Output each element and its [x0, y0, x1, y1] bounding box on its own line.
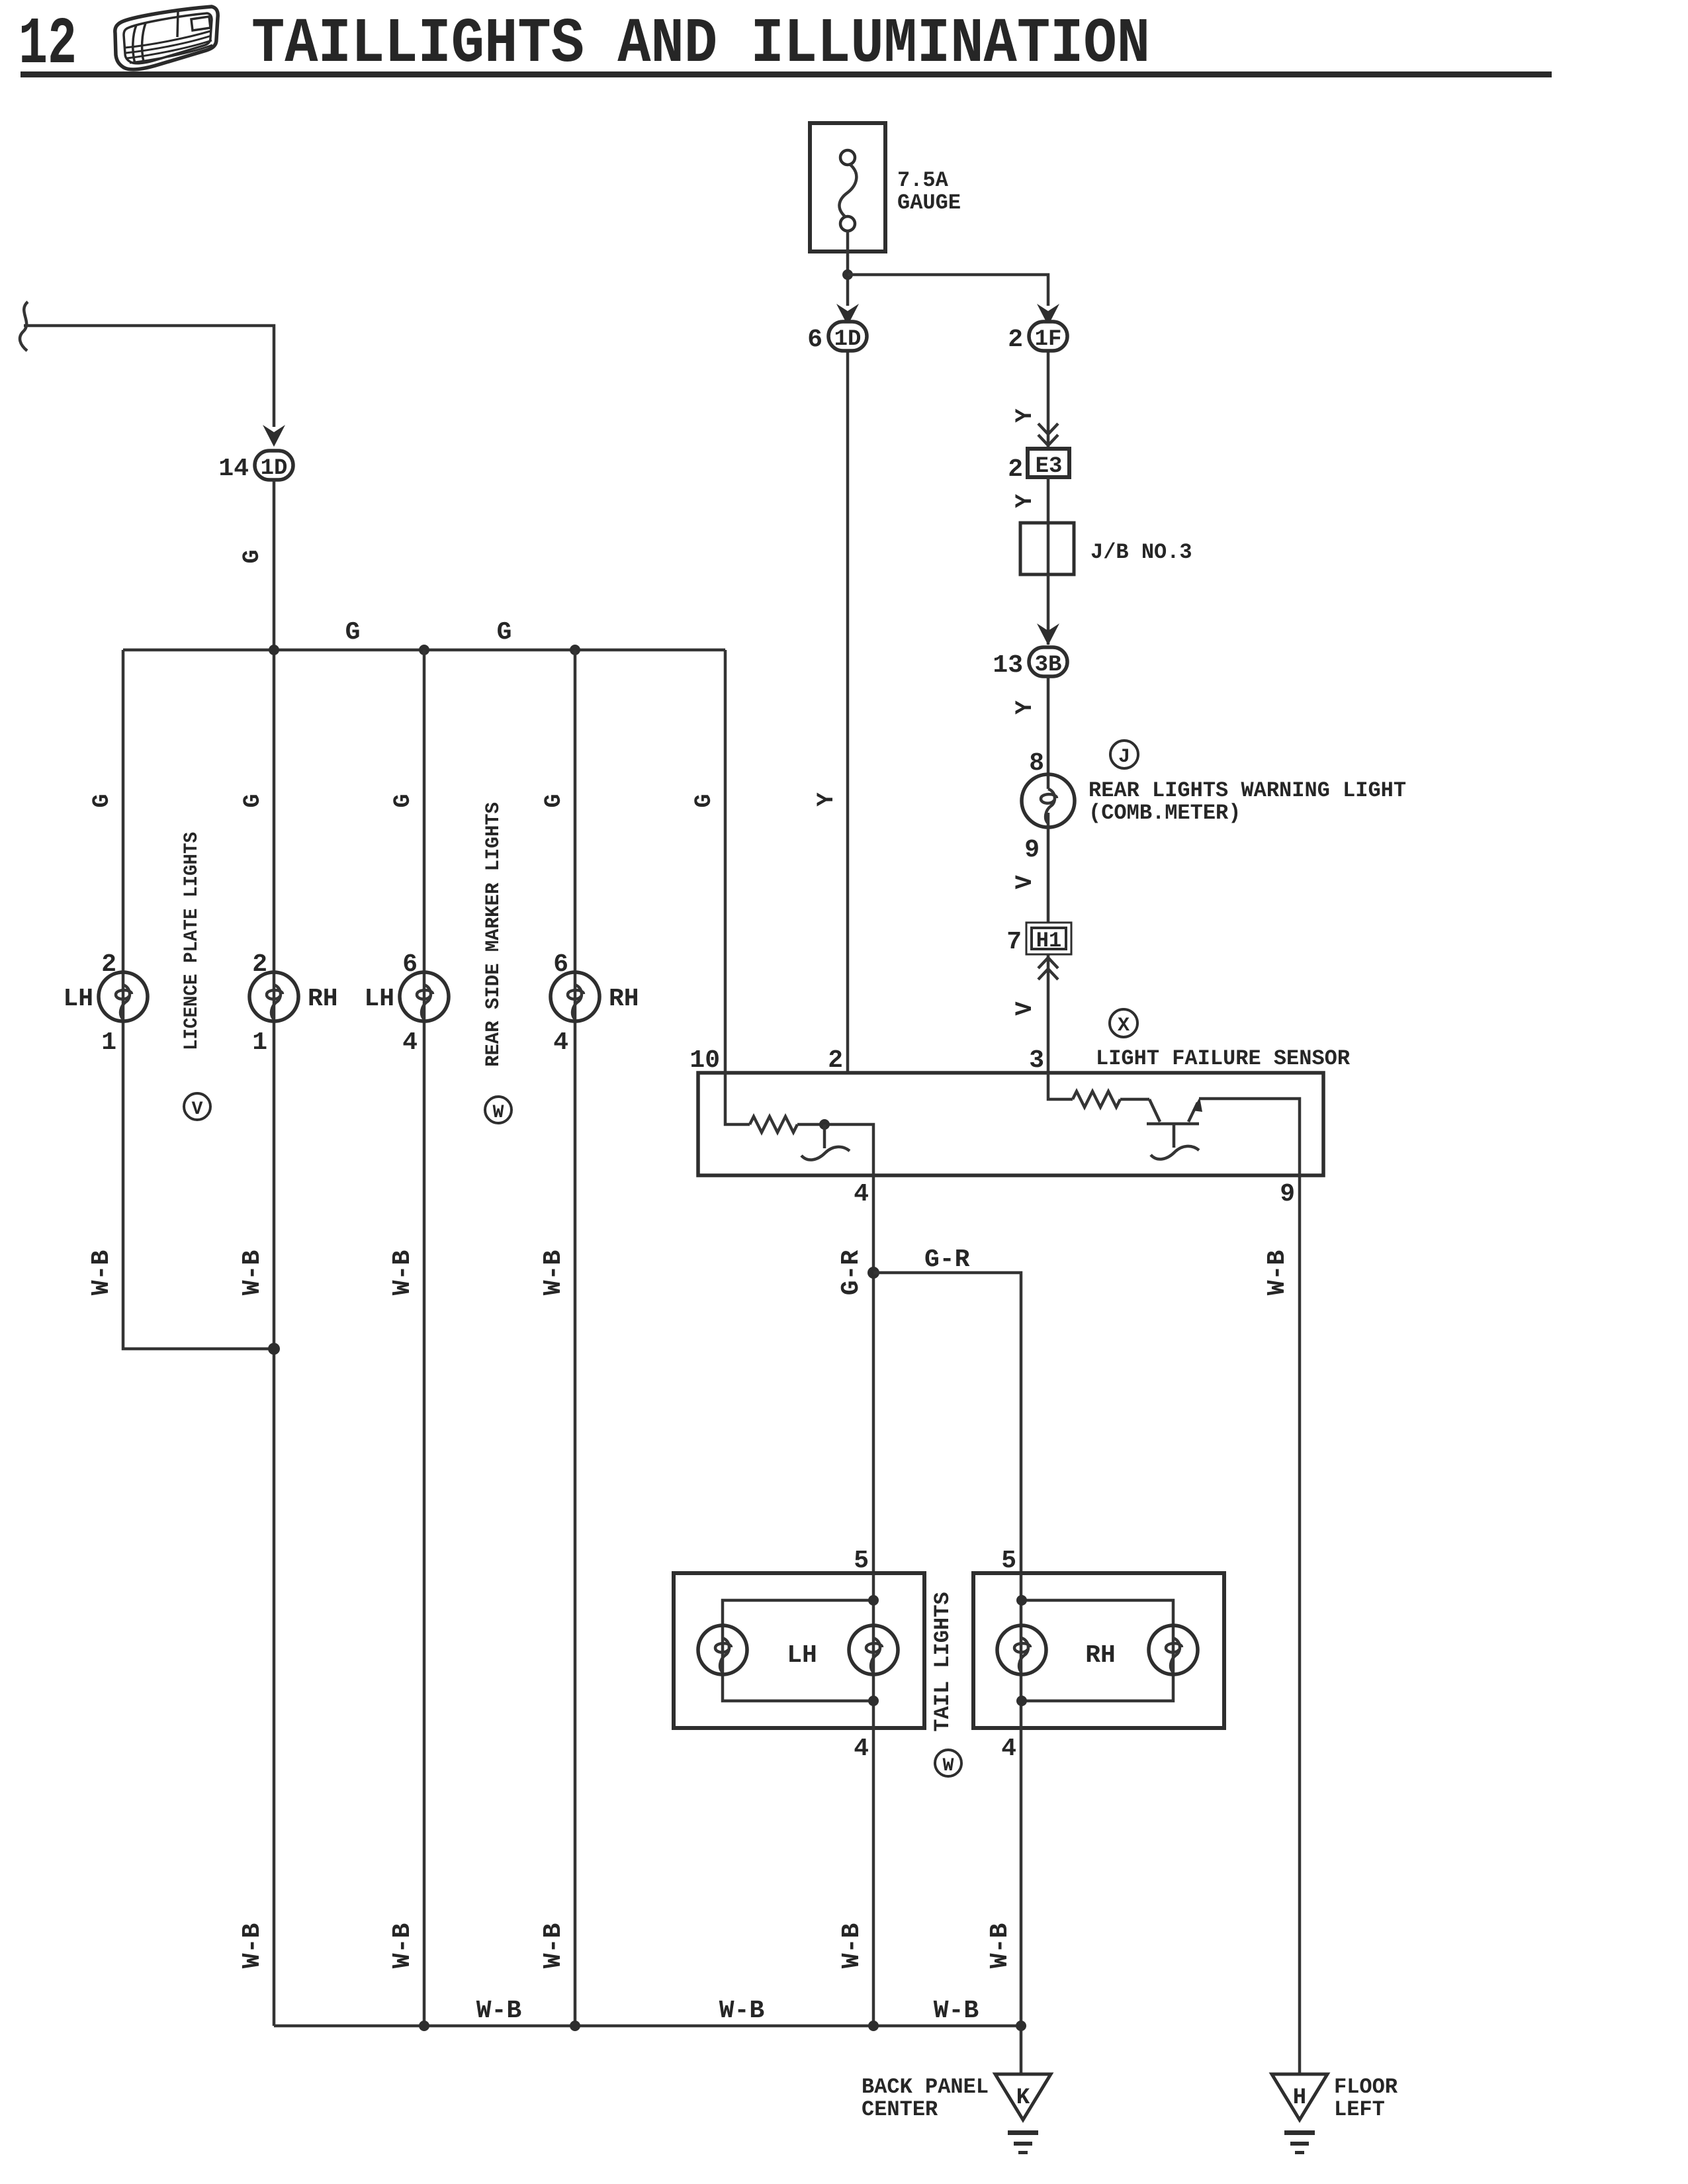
- wire J/B to 3B: [1047, 574, 1050, 645]
- wire H1 to sensor pin 3: [1047, 954, 1050, 1073]
- node bus-col4: [570, 645, 580, 655]
- wire col4 rear marker RH: [574, 650, 577, 2026]
- svg-text:W-B: W-B: [838, 1923, 866, 1968]
- double chevron into E3: [1038, 424, 1058, 445]
- tail light LH box: [674, 1573, 924, 1728]
- node col1 joins col2: [268, 1343, 280, 1355]
- wire 1D oval to sensor pin 2: [846, 351, 850, 1073]
- node RH top: [1016, 1595, 1027, 1606]
- connector oval 1D (14): [218, 451, 293, 483]
- connector arrow into 1D: [836, 304, 859, 326]
- wire pin3 into sensor: [1048, 1073, 1073, 1099]
- svg-text:3B: 3B: [1035, 653, 1062, 678]
- svg-text:RH: RH: [308, 985, 338, 1013]
- svg-text:Y: Y: [1012, 494, 1038, 508]
- svg-text:G: G: [497, 618, 512, 647]
- svg-text:5: 5: [1001, 1547, 1016, 1575]
- svg-text:G: G: [89, 794, 115, 807]
- svg-text:3: 3: [1029, 1046, 1044, 1075]
- svg-text:X: X: [1118, 1015, 1130, 1037]
- wire 1F oval down to E3: [1047, 351, 1050, 449]
- wire RH tail to bottom bus and K ground: [1020, 1728, 1023, 2074]
- svg-text:CENTER: CENTER: [862, 2097, 938, 2122]
- double chevron up into H1: [1038, 958, 1058, 979]
- svg-text:W: W: [493, 1103, 504, 1123]
- svg-text:W-B: W-B: [986, 1923, 1014, 1968]
- svg-text:LIGHT FAILURE SENSOR: LIGHT FAILURE SENSOR: [1096, 1046, 1351, 1071]
- svg-text:FLOOR: FLOOR: [1334, 2075, 1398, 2099]
- wire through RH box: [1020, 1573, 1023, 1728]
- ground K back panel center: [995, 2074, 1051, 2154]
- svg-text:9: 9: [1280, 1180, 1295, 1208]
- svg-text:4: 4: [854, 1735, 869, 1763]
- svg-text:2: 2: [828, 1046, 843, 1075]
- node bus col4: [570, 2021, 580, 2031]
- svg-text:14: 14: [218, 455, 249, 483]
- svg-text:E3: E3: [1036, 454, 1063, 479]
- node bus col3: [419, 2021, 429, 2031]
- svg-text:G: G: [691, 794, 717, 807]
- svg-text:TAIL LIGHTS: TAIL LIGHTS: [930, 1592, 955, 1731]
- svg-text:H1: H1: [1036, 929, 1061, 953]
- LH inner loop wire: [723, 1600, 873, 1701]
- node LH bottom: [868, 1696, 879, 1706]
- connector oval 1F (2): [1008, 322, 1067, 354]
- wire col1 licence LH: [123, 650, 274, 1349]
- svg-text:Y: Y: [1012, 700, 1038, 714]
- lamp licence LH: [99, 972, 148, 1021]
- svg-text:J: J: [1118, 746, 1130, 768]
- svg-text:LEFT: LEFT: [1334, 2097, 1385, 2122]
- svg-text:RH: RH: [1085, 1641, 1116, 1670]
- svg-text:G: G: [240, 794, 266, 807]
- svg-text:2: 2: [1008, 326, 1023, 354]
- svg-text:10: 10: [689, 1046, 720, 1075]
- svg-text:Y: Y: [1012, 408, 1038, 422]
- svg-text:RH: RH: [609, 985, 639, 1013]
- svg-text:W-B: W-B: [719, 1997, 764, 2025]
- connector box E3 (2): [1008, 449, 1069, 484]
- svg-text:6: 6: [553, 950, 568, 979]
- lamp LH tail right: [849, 1625, 898, 1674]
- svg-text:5: 5: [854, 1547, 869, 1575]
- wire resistor to pin 4: [797, 1124, 873, 1175]
- svg-text:W-B: W-B: [87, 1250, 116, 1295]
- lamp marker LH: [400, 972, 449, 1021]
- svg-text:6: 6: [807, 326, 822, 354]
- svg-text:W-B: W-B: [476, 1997, 521, 2025]
- lamp RH tail left: [997, 1625, 1046, 1674]
- resistor R2 in sensor: [1073, 1091, 1120, 1107]
- svg-text:K: K: [1016, 2085, 1030, 2111]
- circled W tail: [935, 1750, 961, 1776]
- wire G-R branch to RH tail light: [873, 1273, 1021, 1573]
- wire squiggle to 1D column: [24, 326, 274, 427]
- svg-text:6: 6: [402, 950, 418, 979]
- svg-text:BACK PANEL: BACK PANEL: [862, 2075, 989, 2099]
- wire E3 to J/B: [1047, 477, 1050, 574]
- svg-text:G-R: G-R: [837, 1250, 866, 1296]
- fuse 7.5A GAUGE: [810, 123, 961, 251]
- node bus-col3: [419, 645, 429, 655]
- svg-text:4: 4: [1001, 1735, 1016, 1763]
- connector box H1 (7): [1006, 923, 1071, 956]
- wire 3B to warning lamp: [1047, 676, 1050, 775]
- svg-text:13: 13: [993, 651, 1023, 680]
- ground H floor left: [1272, 2074, 1327, 2154]
- svg-text:REAR LIGHTS WARNING LIGHT: REAR LIGHTS WARNING LIGHT: [1088, 778, 1406, 803]
- svg-text:2: 2: [252, 950, 267, 979]
- RH inner loop wire: [1022, 1600, 1173, 1701]
- svg-text:Y: Y: [813, 792, 840, 806]
- node bus tail RH: [1016, 2021, 1026, 2031]
- svg-text:W-B: W-B: [539, 1250, 568, 1295]
- svg-text:7: 7: [1006, 928, 1022, 956]
- svg-text:9: 9: [1024, 836, 1040, 864]
- svg-text:G: G: [239, 549, 265, 563]
- lamp RH tail right: [1149, 1625, 1198, 1674]
- svg-text:H: H: [1293, 2085, 1306, 2111]
- node junction below fuse: [842, 269, 853, 280]
- connector arrow into 1F: [1037, 304, 1059, 326]
- svg-text:7.5A: 7.5A: [897, 168, 949, 193]
- node bus tail LH: [868, 2021, 879, 2031]
- svg-text:1D: 1D: [834, 327, 862, 352]
- node RH bottom: [1016, 1696, 1027, 1706]
- svg-text:W-B: W-B: [388, 1923, 417, 1968]
- circled X: [1110, 1009, 1137, 1037]
- svg-text:G: G: [345, 618, 361, 647]
- svg-text:4: 4: [854, 1180, 869, 1208]
- svg-text:LH: LH: [787, 1641, 817, 1670]
- svg-text:G: G: [390, 794, 416, 807]
- wire through LH box: [872, 1573, 875, 1728]
- svg-text:LICENCE PLATE LIGHTS: LICENCE PLATE LIGHTS: [181, 832, 203, 1050]
- svg-text:1F: 1F: [1035, 327, 1062, 352]
- svg-text:W-B: W-B: [388, 1250, 417, 1295]
- svg-text:LH: LH: [63, 985, 93, 1013]
- wire col3 rear marker LH: [423, 650, 426, 2026]
- lamp LH tail left: [698, 1625, 747, 1674]
- svg-text:1: 1: [252, 1028, 267, 1057]
- tail light RH box: [973, 1573, 1224, 1728]
- svg-text:W-B: W-B: [238, 1250, 267, 1295]
- node bus-col2: [269, 645, 279, 655]
- circled W: [485, 1097, 511, 1123]
- svg-text:GAUGE: GAUGE: [897, 191, 961, 215]
- resistor R1 in sensor: [750, 1116, 797, 1132]
- taillight icon: [115, 7, 218, 69]
- wire bottom W-B bus: [274, 2025, 1021, 2028]
- wire resistor to transistor base: [1120, 1098, 1149, 1101]
- svg-text:V: V: [192, 1099, 203, 1120]
- connector oval 3B (13): [993, 647, 1067, 680]
- connector arrow into 1D left: [263, 425, 285, 447]
- svg-text:G: G: [541, 794, 567, 807]
- svg-text:J/B NO.3: J/B NO.3: [1090, 540, 1192, 565]
- node G-R junction: [867, 1267, 879, 1279]
- transistor Q1: [1147, 1097, 1202, 1160]
- header rule: [21, 71, 1552, 77]
- connector arrow into 3B: [1037, 623, 1059, 645]
- svg-text:2: 2: [1008, 455, 1023, 484]
- wire sensor pin9 down to floor ground: [1298, 1175, 1302, 2074]
- circled J: [1110, 741, 1138, 768]
- svg-text:W-B: W-B: [1263, 1250, 1292, 1295]
- svg-text:V: V: [1012, 875, 1038, 889]
- lamp licence RH: [249, 972, 298, 1021]
- sensor element stub left: [823, 1124, 826, 1148]
- wire emitter to pin 9: [1199, 1099, 1300, 1175]
- svg-text:W: W: [943, 1756, 954, 1776]
- svg-text:G-R: G-R: [924, 1246, 970, 1274]
- node sensor left junction: [819, 1119, 830, 1130]
- circled V: [184, 1093, 210, 1120]
- svg-text:2: 2: [101, 950, 116, 979]
- continuation squiggle top-left: [20, 302, 28, 351]
- svg-text:4: 4: [402, 1028, 418, 1057]
- wire top G bus: [123, 649, 725, 652]
- svg-text:REAR SIDE MARKER LIGHTS: REAR SIDE MARKER LIGHTS: [482, 802, 505, 1067]
- wire LH tail to bottom bus: [872, 1728, 875, 2026]
- svg-text:W-B: W-B: [238, 1923, 267, 1968]
- svg-text:TAILLIGHTS AND ILLUMINATION: TAILLIGHTS AND ILLUMINATION: [251, 8, 1150, 80]
- svg-text:4: 4: [553, 1028, 568, 1057]
- wire sensor pin4 down to LH tail light: [872, 1175, 875, 1573]
- connector oval 1D (6): [807, 322, 867, 354]
- svg-text:W-B: W-B: [934, 1997, 979, 2025]
- wire fuse to junction: [846, 231, 850, 306]
- svg-text:(COMB.METER): (COMB.METER): [1088, 801, 1241, 825]
- wire junction to 1F branch: [848, 275, 1048, 306]
- svg-text:1D: 1D: [261, 456, 288, 481]
- wire lamp to H1: [1047, 827, 1050, 924]
- svg-text:LH: LH: [364, 985, 394, 1013]
- wire col5 bus to sensor pin10: [724, 650, 727, 1073]
- lamp marker RH: [551, 972, 600, 1021]
- sensor thermal swoosh left: [801, 1147, 850, 1160]
- svg-text:V: V: [1012, 1001, 1038, 1015]
- lamp rear lights warning light: [1022, 774, 1075, 827]
- node LH top: [868, 1595, 879, 1606]
- wire pin10 into sensor: [725, 1073, 750, 1124]
- junction block J/B NO.3: [1020, 523, 1192, 574]
- wire col2 from 1D to bottom bus: [273, 480, 276, 2026]
- svg-text:W-B: W-B: [539, 1923, 568, 1968]
- svg-text:1: 1: [101, 1028, 116, 1057]
- light failure sensor box U1: [698, 1073, 1323, 1175]
